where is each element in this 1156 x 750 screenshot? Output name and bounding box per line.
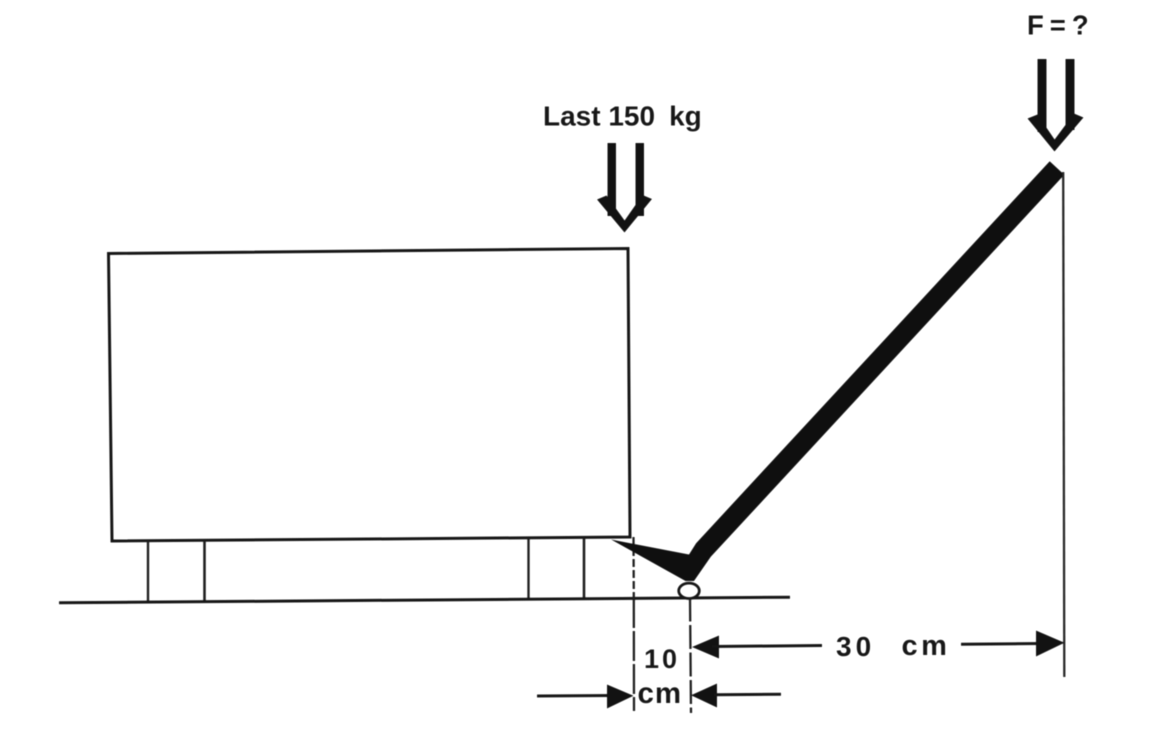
extension line below fulcrum (dashed) — [690, 598, 691, 714]
svg-text:10: 10 — [644, 644, 680, 674]
ground line — [59, 597, 790, 603]
dimension 30 cm : left arrowhead (points left to fulcrum line) — [692, 636, 719, 659]
load force arrow (double-shaft down arrow under Last 150 kg) — [597, 143, 652, 233]
dimension 10 cm : right-pointing arrowhead at box-edge line — [607, 685, 634, 709]
right foot of box — [527, 538, 529, 600]
svg-text:30: 30 — [836, 631, 875, 662]
dimension 10 cm : left line segment — [537, 694, 612, 698]
dimension 10 cm : right line segment — [714, 693, 781, 697]
dimension 30 cm : right arrowhead (points right to lever-top line) — [1036, 631, 1065, 657]
force arrow F (double-shaft down arrow above lever top) — [1028, 59, 1084, 152]
extension line below box right edge, lower part — [633, 598, 636, 711]
dimension 10 cm : left-pointing arrowhead at fulcrum line — [691, 684, 717, 708]
dimension 30 cm : left line segment — [712, 646, 822, 647]
fulcrum circle — [679, 583, 700, 598]
svg-text:cm: cm — [638, 677, 683, 710]
extension line below box right edge, upper broken part — [632, 537, 635, 598]
left foot of box — [147, 541, 149, 603]
svg-text:cm: cm — [902, 630, 951, 662]
lever (crowbar: wedge tip, heel and shaft as one outline) — [611, 161, 1064, 581]
box (load crate) — [109, 249, 631, 542]
extension line from lever top down to 30cm dimension — [1063, 172, 1064, 677]
svg-text:Last 150 kg: Last 150 kg — [543, 101, 702, 132]
dimension 30 cm : right line segment — [961, 642, 1042, 646]
svg-text:F=?: F=? — [1027, 10, 1095, 41]
